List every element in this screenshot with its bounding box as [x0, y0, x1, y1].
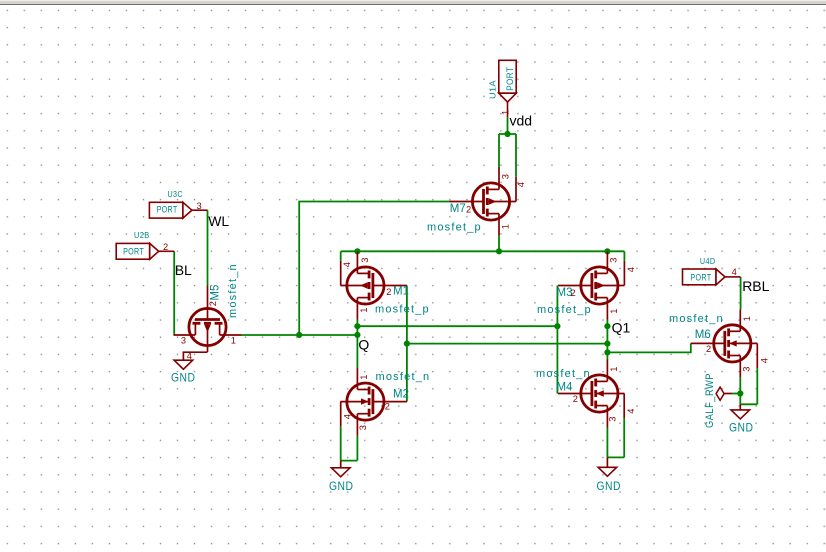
svg-text:U4D: U4D	[700, 256, 716, 266]
svg-text:4: 4	[626, 267, 636, 272]
wire WL vertical	[207, 210, 209, 285]
svg-text:mosfet_n: mosfet_n	[227, 263, 239, 318]
wire RBL vertical	[740, 277, 742, 309]
svg-text:3: 3	[181, 336, 186, 346]
wire M2 bulk down	[340, 426, 342, 460]
junction rail M7	[496, 248, 502, 254]
M4 gnd stem	[606, 457, 608, 467]
svg-text:GALF_RWP: GALF_RWP	[704, 373, 716, 428]
svg-text:3: 3	[197, 201, 202, 211]
svg-text:1: 1	[501, 224, 511, 229]
wire M6 bulk down	[756, 368, 758, 404]
svg-text:BL: BL	[175, 262, 192, 278]
svg-text:GND: GND	[729, 421, 754, 435]
port U4D box	[683, 269, 717, 285]
junction M7 gate at Q	[296, 332, 302, 338]
wire node Q1 column	[606, 320, 608, 360]
wire M6 gnd horizontal	[740, 403, 757, 405]
transistor M1 mosfet_p	[340, 252, 407, 320]
wire M5 source to node Q	[242, 334, 358, 336]
svg-text:4: 4	[626, 409, 636, 414]
svg-text:3: 3	[360, 258, 370, 263]
wire Q1 cross to M1 M2 gates	[407, 343, 608, 345]
wire M6 source down	[739, 377, 741, 404]
svg-text:GND: GND	[171, 371, 196, 385]
svg-text:2: 2	[571, 288, 576, 298]
transistor M5 mosfet_n	[174, 286, 242, 353]
svg-text:M6: M6	[695, 329, 711, 341]
svg-text:4: 4	[343, 414, 353, 419]
wire vdd port to junction	[507, 118, 509, 134]
wire Q to M3 M4 gates	[357, 325, 557, 327]
svg-text:2: 2	[466, 204, 471, 214]
junction M1 M2 gate cross	[404, 341, 410, 347]
junction rail M3	[604, 248, 610, 254]
svg-text:3: 3	[742, 367, 752, 372]
svg-text:2: 2	[706, 344, 711, 354]
svg-text:PORT: PORT	[123, 246, 144, 256]
wire vdd horizontal jog	[499, 133, 516, 135]
svg-text:1: 1	[359, 375, 369, 380]
window top border	[0, 0, 826, 5]
wire M1 M2 gate column	[406, 286, 408, 402]
svg-text:M1: M1	[393, 285, 409, 297]
power flag PWR_FLAG	[716, 387, 724, 400]
junction M6 gnd	[737, 390, 743, 396]
transistor M6 mosfet_n	[691, 309, 758, 377]
junction M3 M4 gate	[554, 323, 560, 329]
svg-text:U2B: U2B	[134, 230, 150, 240]
svg-text:Q: Q	[358, 337, 369, 353]
svg-text:4: 4	[342, 262, 352, 267]
port U1A box	[499, 60, 516, 93]
svg-text:1: 1	[742, 316, 752, 321]
svg-text:1: 1	[231, 336, 236, 346]
wire PWR_FLAG to junction	[732, 393, 740, 395]
M2 gnd stem	[340, 461, 342, 468]
port U2B box	[116, 243, 150, 259]
wire rail drop to M3 bulk	[623, 251, 625, 260]
svg-text:1: 1	[609, 367, 619, 372]
svg-text:4: 4	[759, 358, 769, 363]
wire node Q column	[356, 320, 358, 368]
wire Q1 to M6 gate	[607, 343, 690, 352]
svg-text:U1A: U1A	[487, 80, 497, 99]
svg-text:PORT: PORT	[157, 205, 178, 215]
transistor M7 mosfet_p	[450, 168, 517, 236]
ground symbol M4	[598, 467, 617, 476]
M6 gnd stem	[739, 404, 741, 410]
wire M2 source down	[356, 436, 358, 461]
wire M7 drain down to rail	[498, 236, 500, 252]
M3 bulk pin vertical	[623, 261, 625, 286]
svg-text:M5: M5	[210, 285, 222, 301]
transistor M4 mosfet_n	[558, 360, 625, 428]
wire M4 bulk down	[623, 418, 625, 457]
svg-text:2: 2	[385, 402, 390, 412]
junction vdd	[504, 131, 510, 137]
port U3C box	[149, 202, 183, 218]
junction Q1 lower	[604, 349, 610, 355]
junction rail M1	[354, 248, 360, 254]
svg-text:4: 4	[187, 351, 192, 361]
M4 bulk pin vertical	[623, 394, 625, 419]
M2 bulk pin vertical	[340, 402, 342, 427]
ground symbol M5	[174, 360, 193, 369]
wire M3 M4 gate column	[556, 286, 558, 394]
svg-text:GND: GND	[329, 479, 354, 493]
M5 bulk jog to GND	[183, 352, 207, 360]
M1 bulk pin vertical	[340, 261, 342, 286]
transistor M2 mosfet_n	[340, 368, 407, 436]
svg-text:3: 3	[501, 174, 511, 179]
M7 bulk pin vertical	[515, 177, 517, 202]
svg-text:M7: M7	[450, 203, 466, 215]
svg-text:U3C: U3C	[168, 189, 184, 199]
svg-text:GND: GND	[597, 479, 622, 493]
PWR_FLAG pin	[724, 393, 732, 395]
wire M7 gate to node Q	[299, 202, 449, 335]
svg-text:mosfet_n: mosfet_n	[536, 368, 591, 380]
svg-text:mosfet_p: mosfet_p	[427, 222, 482, 234]
svg-text:2: 2	[386, 287, 391, 297]
svg-text:2: 2	[163, 242, 168, 252]
svg-text:mosfet_n: mosfet_n	[669, 313, 724, 325]
svg-text:2: 2	[208, 301, 218, 306]
svg-text:vdd: vdd	[510, 112, 533, 128]
svg-text:PORT: PORT	[690, 272, 711, 282]
wire rail drop to M1 bulk	[340, 251, 342, 260]
junction Q lower	[354, 332, 360, 338]
svg-text:M4: M4	[557, 382, 574, 394]
junction Q1 cross	[604, 341, 610, 347]
M6 bulk pin vertical	[756, 343, 758, 368]
svg-text:mosfet_p: mosfet_p	[375, 304, 430, 316]
junction Q1 upper	[604, 323, 610, 329]
wire vdd rail	[341, 250, 625, 252]
svg-text:4: 4	[732, 267, 737, 277]
svg-text:3: 3	[358, 425, 368, 430]
junction Q upper	[354, 323, 360, 329]
svg-text:4: 4	[516, 182, 526, 187]
wire M4 source down	[606, 428, 608, 458]
svg-text:1: 1	[500, 110, 510, 115]
wire vdd to M7 bulk	[515, 134, 517, 177]
svg-text:M2: M2	[393, 388, 409, 400]
svg-text:2: 2	[573, 394, 578, 404]
wire BL vertical	[173, 251, 175, 335]
svg-text:mosfet_n: mosfet_n	[376, 371, 431, 383]
ground symbol M2	[331, 468, 350, 477]
svg-text:mosfet_p: mosfet_p	[537, 304, 592, 316]
wire M2 gnd horizontal	[341, 460, 358, 462]
svg-text:Q1: Q1	[612, 320, 631, 336]
svg-text:3: 3	[608, 417, 618, 422]
wire vdd to M7 drain	[498, 134, 500, 168]
wire M4 gnd horizontal	[607, 456, 624, 458]
svg-text:RBL: RBL	[742, 278, 769, 294]
svg-text:WL: WL	[208, 213, 229, 229]
svg-text:1: 1	[359, 308, 369, 313]
transistor M3 mosfet_p	[558, 252, 625, 320]
ground symbol M6	[731, 410, 750, 419]
svg-text:3: 3	[609, 258, 619, 263]
svg-text:PORT: PORT	[505, 67, 515, 91]
svg-text:1: 1	[609, 309, 619, 314]
